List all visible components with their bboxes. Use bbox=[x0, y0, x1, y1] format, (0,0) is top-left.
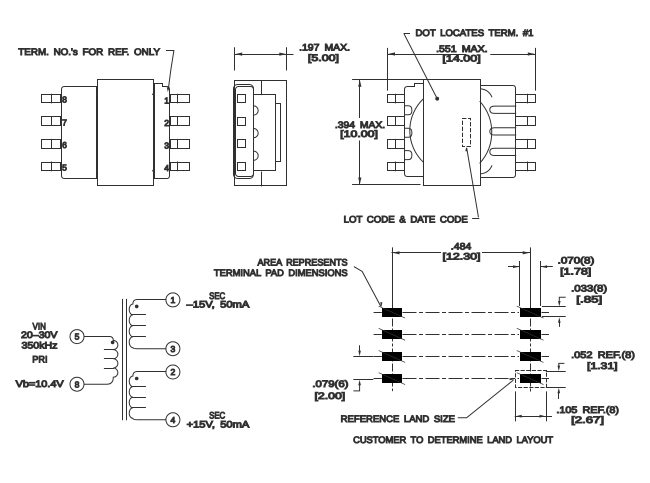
leader from lot code box bbox=[465, 147, 479, 219]
label: DOT LOCATES TERM. #1 bbox=[416, 27, 534, 38]
dimension .033 extension lines bbox=[543, 307, 566, 317]
svg-text:2: 2 bbox=[164, 118, 169, 128]
svg-text:.052 REF.(8): .052 REF.(8) bbox=[571, 349, 635, 360]
svg-text:.070(8): .070(8) bbox=[558, 254, 595, 265]
schematic labels primary bbox=[16, 321, 65, 389]
dimension text .105 REF.(8) [2.67] bbox=[556, 404, 619, 425]
dimension .551 extension lines bbox=[388, 48, 536, 90]
svg-text:[1.31]: [1.31] bbox=[587, 360, 618, 371]
primary winding bbox=[84, 340, 118, 384]
dimension text .052 REF.(8) [1.31] bbox=[571, 349, 635, 371]
top view right flange bbox=[480, 86, 516, 178]
wire secondary1 to pin1 bbox=[133, 300, 166, 305]
left pad column centerline bbox=[392, 248, 394, 391]
schematic terminal 1 bbox=[166, 293, 180, 307]
dimension .070 extension lines bbox=[520, 262, 541, 306]
dimension text .394 MAX [10.00] bbox=[335, 119, 385, 139]
dimension .105 dimension line bbox=[515, 415, 551, 418]
right terminal pad row 3 bbox=[517, 351, 543, 363]
svg-text:1: 1 bbox=[164, 95, 169, 105]
dimension .394 extension lines bbox=[353, 80, 424, 185]
svg-text:TERM. NO.'s FOR REF. ONLY: TERM. NO.'s FOR REF. ONLY bbox=[18, 46, 160, 57]
svg-text:[1.78]: [1.78] bbox=[560, 266, 591, 277]
dimension text .079(6) [2.00] bbox=[312, 378, 348, 401]
svg-text:[12.30]: [12.30] bbox=[443, 251, 481, 262]
leader to pad area bbox=[354, 267, 382, 307]
left terminal pad row 1 bbox=[379, 306, 405, 318]
svg-text:3: 3 bbox=[171, 344, 176, 354]
side view core plate bbox=[254, 95, 281, 171]
schematic terminal 2 bbox=[166, 365, 180, 379]
svg-text:3: 3 bbox=[164, 141, 169, 151]
dimension text .551 MAX [14.00] bbox=[436, 43, 488, 64]
svg-text:[2.67]: [2.67] bbox=[571, 414, 604, 425]
left terminal pad row 2 bbox=[379, 329, 405, 341]
side view pin 7 cross-section bbox=[238, 118, 246, 126]
svg-text:.033(8): .033(8) bbox=[571, 283, 607, 294]
svg-text:1: 1 bbox=[171, 295, 176, 305]
label: TERM. NO.s FOR REF. ONLY bbox=[18, 46, 160, 57]
side view outer body bbox=[235, 81, 287, 186]
top view left pin bbox=[388, 117, 405, 126]
svg-text:[10.00]: [10.00] bbox=[340, 128, 378, 139]
svg-text:5: 5 bbox=[75, 332, 80, 342]
svg-text:[14.00]: [14.00] bbox=[442, 53, 480, 64]
svg-text:7: 7 bbox=[62, 117, 67, 127]
left terminal pad row 4 bbox=[379, 373, 405, 385]
top view right pin bbox=[516, 94, 536, 103]
schematic labels secondary 2 bbox=[187, 410, 251, 430]
svg-text:[2.00]: [2.00] bbox=[315, 390, 346, 401]
dimension .105 extension lines bbox=[516, 392, 547, 421]
dimension .079 arrows bbox=[354, 346, 361, 391]
front view pin 1 bbox=[164, 94, 189, 105]
dimension .079 extension lines bbox=[354, 357, 373, 380]
svg-text:8: 8 bbox=[75, 379, 80, 389]
dimension text .070(8) [1.78] bbox=[558, 254, 595, 276]
front view body center core bbox=[98, 80, 154, 186]
reference land dashed box bbox=[516, 371, 547, 388]
top view right pin bbox=[516, 117, 536, 126]
svg-text:CUSTOMER TO DETERMINE LAND LAY: CUSTOMER TO DETERMINE LAND LAYOUT bbox=[353, 434, 553, 445]
right pad column centerline bbox=[530, 248, 532, 392]
front view pin 7 bbox=[42, 117, 68, 128]
side view bobbin flange bbox=[234, 85, 254, 179]
dimension .052 extension lines bbox=[546, 372, 565, 388]
dimension .197 extension lines bbox=[235, 48, 287, 70]
svg-text:.197 MAX.: .197 MAX. bbox=[299, 41, 350, 52]
side view pin 8 cross-section bbox=[238, 95, 246, 103]
svg-text:2: 2 bbox=[171, 367, 176, 377]
svg-text:–15V, 50mA: –15V, 50mA bbox=[187, 299, 251, 310]
schematic terminal 8 bbox=[70, 377, 84, 391]
leader to reference land box bbox=[458, 378, 514, 418]
label: AREA REPRESENTS TERMINAL PAD DIMENSIONS bbox=[214, 257, 348, 278]
svg-text:PRI: PRI bbox=[32, 354, 47, 365]
secondary winding 1 bbox=[129, 304, 166, 349]
top view left flange with notch bbox=[405, 84, 424, 177]
top view left pin bbox=[388, 94, 405, 103]
svg-text:5: 5 bbox=[62, 163, 67, 173]
svg-text:4: 4 bbox=[171, 415, 176, 425]
row 2 centerline bbox=[374, 334, 548, 336]
front view pin 3 bbox=[164, 139, 189, 150]
left terminal pad row 3 bbox=[379, 351, 405, 363]
row 3 centerline bbox=[374, 356, 548, 358]
svg-text:DOT LOCATES TERM. #1: DOT LOCATES TERM. #1 bbox=[416, 27, 534, 38]
front view pin 2 bbox=[164, 117, 189, 128]
note: CUSTOMER TO DETERMINE LAND LAYOUT bbox=[353, 434, 553, 445]
leader to terminal 1 bbox=[167, 51, 174, 93]
svg-text:Vb=10.4V: Vb=10.4V bbox=[16, 378, 65, 389]
schematic terminal 3 bbox=[166, 342, 180, 356]
top view left pin bbox=[388, 162, 405, 171]
row 1 centerline bbox=[374, 312, 548, 314]
secondary winding 2 bbox=[129, 376, 166, 420]
wire secondary2 to pin2 bbox=[133, 372, 166, 377]
schematic terminal 4 bbox=[166, 413, 180, 427]
svg-text:4: 4 bbox=[164, 163, 169, 173]
row 4 centerline bbox=[374, 378, 548, 380]
lot code dashed box bbox=[463, 119, 471, 147]
side view pin 6 cross-section bbox=[238, 140, 246, 148]
svg-text:350kHz: 350kHz bbox=[22, 340, 58, 351]
terminal 1 locating dot bbox=[435, 97, 439, 101]
svg-text:.079(6): .079(6) bbox=[312, 378, 348, 389]
dimension .070 arrows bbox=[509, 265, 553, 268]
front view pin 6 bbox=[42, 139, 68, 150]
right terminal pad row 2 bbox=[517, 329, 543, 341]
svg-text:8: 8 bbox=[62, 95, 67, 105]
svg-text:6: 6 bbox=[62, 140, 67, 150]
leader to polarity dot bbox=[404, 34, 437, 99]
svg-text:[5.00]: [5.00] bbox=[308, 52, 339, 63]
schematic terminal 5 bbox=[70, 330, 84, 344]
top view right pin bbox=[516, 162, 536, 171]
front view left flange bbox=[62, 87, 97, 179]
front view pin 5 bbox=[42, 162, 68, 173]
front view pin 4 bbox=[164, 162, 189, 173]
svg-text:+15V, 50mA: +15V, 50mA bbox=[187, 418, 251, 429]
front view right flange with term-1 notch bbox=[155, 84, 170, 179]
dimension text .197 MAX [5.00] bbox=[299, 41, 350, 63]
top view left pin bbox=[388, 139, 405, 148]
front view flange corner dots bbox=[96, 93, 154, 171]
label: LOT CODE & DATE CODE bbox=[344, 214, 468, 225]
top view right pin bbox=[516, 139, 536, 148]
dimension text .033(8) [.85] bbox=[571, 283, 607, 305]
side view flange edge bumps bbox=[254, 106, 259, 160]
dimension .197 dimension line bbox=[235, 53, 293, 56]
secondary 2 polarity dot bbox=[135, 377, 139, 381]
secondary 1 polarity dot bbox=[135, 305, 139, 309]
right terminal pad row 1 bbox=[517, 306, 543, 318]
dimension .033 arrows bbox=[558, 297, 565, 326]
svg-text:LOT CODE & DATE CODE: LOT CODE & DATE CODE bbox=[344, 214, 468, 225]
right terminal pad row 4 bbox=[517, 373, 543, 385]
svg-text:20–30V: 20–30V bbox=[21, 329, 58, 340]
front view pin 8 bbox=[42, 94, 68, 105]
dimension .551 dimension line bbox=[388, 52, 536, 55]
svg-text:REFERENCE LAND SIZE: REFERENCE LAND SIZE bbox=[341, 413, 455, 424]
primary polarity dot bbox=[111, 341, 115, 345]
svg-text:TERMINAL PAD DIMENSIONS: TERMINAL PAD DIMENSIONS bbox=[214, 267, 348, 278]
svg-text:[.85]: [.85] bbox=[576, 294, 602, 305]
schematic labels secondary 1 bbox=[187, 290, 251, 310]
label: REFERENCE LAND SIZE bbox=[341, 413, 455, 424]
wire pin5 to primary bbox=[84, 337, 113, 341]
dimension .052 arrows bbox=[558, 363, 564, 398]
top view core bbox=[424, 80, 481, 186]
transformer core bbox=[123, 299, 127, 419]
dimension text .484 [12.30] bbox=[443, 241, 481, 262]
dimension .484 dimension line bbox=[392, 251, 530, 254]
side view pin 5 cross-section bbox=[238, 163, 246, 171]
dimension .394 dimension line bbox=[358, 80, 361, 185]
